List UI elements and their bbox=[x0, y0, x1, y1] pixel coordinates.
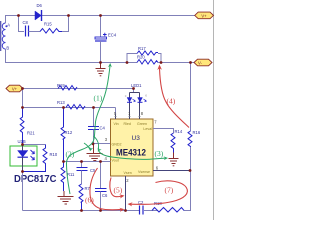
svg-text:U3: U3 bbox=[132, 135, 141, 142]
svg-text:(6): (6) bbox=[85, 196, 94, 205]
junction node (93.5,107.5) bbox=[92, 106, 95, 109]
wire pin2 drop bbox=[125, 176, 127, 211]
svg-text:Green: Green bbox=[137, 122, 147, 126]
wire pin7 bbox=[153, 129, 174, 134]
svg-text:DPC817C: DPC817C bbox=[14, 174, 57, 185]
resistor R16 bbox=[188, 130, 201, 147]
capacitor EC4 bbox=[95, 33, 117, 63]
resistor R18 bbox=[152, 201, 184, 212]
svg-text:A: A bbox=[7, 23, 10, 28]
capacitor C6 bbox=[95, 162, 108, 211]
wire LED top bar bbox=[130, 92, 140, 94]
junction node (100.5,161.5) bbox=[99, 160, 102, 163]
ground below R11 bbox=[58, 191, 74, 204]
annotation green arrowhead at gnd2 bbox=[98, 147, 102, 151]
junction node (161,62.5) bbox=[160, 61, 163, 64]
capacitor C4 bbox=[88, 126, 106, 144]
wire transformer bottom lead bbox=[6, 49, 101, 63]
annotation green line 3 bbox=[99, 151, 166, 160]
svg-text:ME4312: ME4312 bbox=[116, 148, 146, 159]
annotation green curve 1-2 bbox=[67, 65, 111, 195]
svg-text:V+: V+ bbox=[201, 13, 207, 18]
wire mid rail to V- flag bbox=[158, 62, 194, 64]
svg-text:C6: C6 bbox=[102, 193, 108, 198]
wire bottom rail bbox=[23, 210, 140, 212]
resistor R15 bbox=[40, 22, 62, 34]
transformer T1 core bbox=[0, 21, 2, 51]
junction node (81.5,210.5) bbox=[80, 209, 83, 212]
svg-text:B: B bbox=[6, 46, 9, 51]
junction node (93,143.8) bbox=[92, 142, 95, 145]
svg-text:R11: R11 bbox=[67, 172, 75, 177]
wire right rail lower bbox=[184, 147, 191, 211]
wire pin5 drop bbox=[115, 108, 117, 120]
wire EC4 drop bbox=[100, 16, 102, 38]
wire opto cathode drop bbox=[22, 172, 24, 211]
svg-text:R21: R21 bbox=[27, 131, 35, 136]
annotation red curve 5 bbox=[110, 178, 122, 197]
svg-text:R14: R14 bbox=[175, 129, 183, 134]
diode D6 bbox=[35, 3, 43, 21]
svg-text:GND2: GND2 bbox=[112, 143, 122, 147]
annotation red curve 7 bbox=[131, 181, 188, 205]
svg-text:(4): (4) bbox=[167, 97, 176, 106]
svg-text:V+: V+ bbox=[12, 87, 18, 92]
svg-text:R12: R12 bbox=[65, 130, 73, 135]
svg-text:Vin: Vin bbox=[114, 122, 119, 126]
power port V+ flag left bbox=[6, 85, 23, 92]
junction node (81.5,161.5) bbox=[80, 160, 83, 163]
svg-text:Vout: Vout bbox=[112, 159, 119, 163]
optocoupler LED bbox=[18, 145, 35, 172]
wire V+ feed y88.5 bbox=[23, 88, 134, 90]
wire LED feed stub bbox=[133, 89, 135, 93]
resistor R12 bbox=[61, 108, 73, 162]
IC U3 box bbox=[111, 119, 154, 176]
resistor R13 bbox=[57, 100, 85, 109]
annotation red arrowhead 6 bbox=[119, 208, 124, 212]
svg-text:R17: R17 bbox=[138, 46, 146, 51]
transformer T1 winding bbox=[2, 23, 5, 49]
resistor R14 bbox=[171, 129, 183, 153]
annotation red arrowhead 5 bbox=[119, 194, 124, 198]
resistor R21 bbox=[20, 108, 35, 145]
svg-text:R13: R13 bbox=[57, 100, 65, 105]
junction node (100.5,62.5) bbox=[99, 61, 102, 64]
svg-text:Leval: Leval bbox=[143, 127, 152, 131]
ground pin3 GND2 bbox=[87, 144, 103, 161]
annotation green arrowhead 3 bbox=[164, 156, 168, 160]
svg-text:LED1: LED1 bbox=[131, 83, 142, 88]
ground below R14 bbox=[169, 153, 179, 166]
wire snubber left drop bbox=[19, 16, 25, 32]
junction node (100.5,210.5) bbox=[99, 209, 102, 212]
annotation red curve 4 bbox=[160, 68, 190, 128]
wire C4 branch bbox=[93, 108, 95, 127]
annotation red arrowhead 7 bbox=[128, 202, 133, 206]
capacitor C2 bbox=[138, 200, 144, 215]
svg-text:R20: R20 bbox=[137, 55, 145, 60]
wire Vout y161.5 bbox=[64, 161, 111, 163]
svg-text:R19: R19 bbox=[57, 83, 65, 88]
junction node (63.5,107.5) bbox=[62, 106, 65, 109]
svg-text:R16: R16 bbox=[193, 130, 201, 135]
junction node (22.5,88.5) bbox=[21, 87, 24, 90]
annotation red curve 6 bbox=[90, 168, 100, 209]
svg-text:U2B: U2B bbox=[18, 139, 26, 144]
svg-text:e: e bbox=[145, 94, 147, 98]
junction node (22.5,171.5) bbox=[21, 170, 24, 173]
optocoupler U2B box bbox=[10, 146, 37, 166]
junction node (127,62.5) bbox=[126, 61, 129, 64]
junction node (22.5,144.5) bbox=[21, 143, 24, 146]
power port V- flag right bbox=[194, 59, 212, 66]
junction node (100.5,15.5) bbox=[99, 14, 102, 17]
junction node (68.5,15.5) bbox=[67, 14, 70, 17]
svg-text:Rled: Rled bbox=[124, 122, 131, 126]
svg-text:C4: C4 bbox=[100, 126, 106, 131]
junction node (125.5,210.5) bbox=[124, 209, 127, 212]
wire second feed y107.5 bbox=[23, 107, 116, 109]
resistor R11 bbox=[61, 162, 75, 192]
svg-text:R15: R15 bbox=[44, 22, 52, 27]
wire pin3 bbox=[94, 143, 111, 145]
annotation red arrowhead 4 bbox=[157, 65, 162, 71]
svg-text:V-: V- bbox=[198, 61, 203, 66]
svg-text:(1): (1) bbox=[94, 94, 103, 103]
capacitor C5 bbox=[77, 162, 97, 185]
svg-text:(7): (7) bbox=[165, 186, 174, 195]
IC pin stubs top bbox=[116, 112, 140, 119]
sheet border bbox=[213, 0, 215, 220]
LED D-left bbox=[125, 93, 135, 120]
power port V+ flag top right bbox=[195, 12, 214, 19]
svg-text:R10: R10 bbox=[50, 152, 58, 157]
junction node (190,170.5) bbox=[189, 169, 192, 172]
wire transformer top lead bbox=[6, 16, 19, 24]
resistor R7 bbox=[79, 184, 91, 211]
svg-text:D6: D6 bbox=[37, 3, 43, 8]
wire snubber right riser bbox=[62, 16, 69, 32]
resistor R10 bbox=[23, 145, 58, 172]
resistor R19 bbox=[57, 83, 77, 90]
svg-text:Vsense: Vsense bbox=[138, 170, 150, 174]
svg-text:(2): (2) bbox=[66, 150, 75, 159]
annotation green arrowhead at rail bbox=[108, 63, 112, 67]
wire R10 top bbox=[23, 144, 46, 146]
junction node (133.5,88.5) bbox=[132, 87, 135, 90]
svg-text:(5): (5) bbox=[114, 186, 123, 195]
junction node (22.5,107.5) bbox=[21, 106, 24, 109]
junction node (190.5,62.5) bbox=[189, 61, 192, 64]
wire top rail y15 bbox=[19, 15, 195, 17]
capacitor C8 bbox=[23, 20, 41, 37]
svg-text:C8: C8 bbox=[23, 20, 29, 25]
resistor R20 bbox=[137, 55, 158, 65]
resistor R17 parallel branch bbox=[127, 46, 161, 63]
wire right rail x191 upper bbox=[190, 63, 192, 132]
junction node (63.5,161.5) bbox=[62, 160, 65, 163]
svg-text:(3): (3) bbox=[155, 149, 164, 158]
wire pin6 bbox=[153, 170, 191, 172]
transformer phase dot bbox=[5, 25, 7, 27]
junction node (18.5,15.5) bbox=[17, 14, 20, 17]
LED D-right bbox=[138, 93, 148, 120]
wire mid rail to R20 bbox=[101, 62, 138, 64]
svg-text:Vsen: Vsen bbox=[124, 171, 132, 175]
ground (power) at mid rail bbox=[96, 63, 106, 76]
svg-text:c: c bbox=[125, 94, 127, 98]
wire V+ branch drop bbox=[22, 89, 24, 108]
svg-text:EC4: EC4 bbox=[108, 33, 117, 38]
